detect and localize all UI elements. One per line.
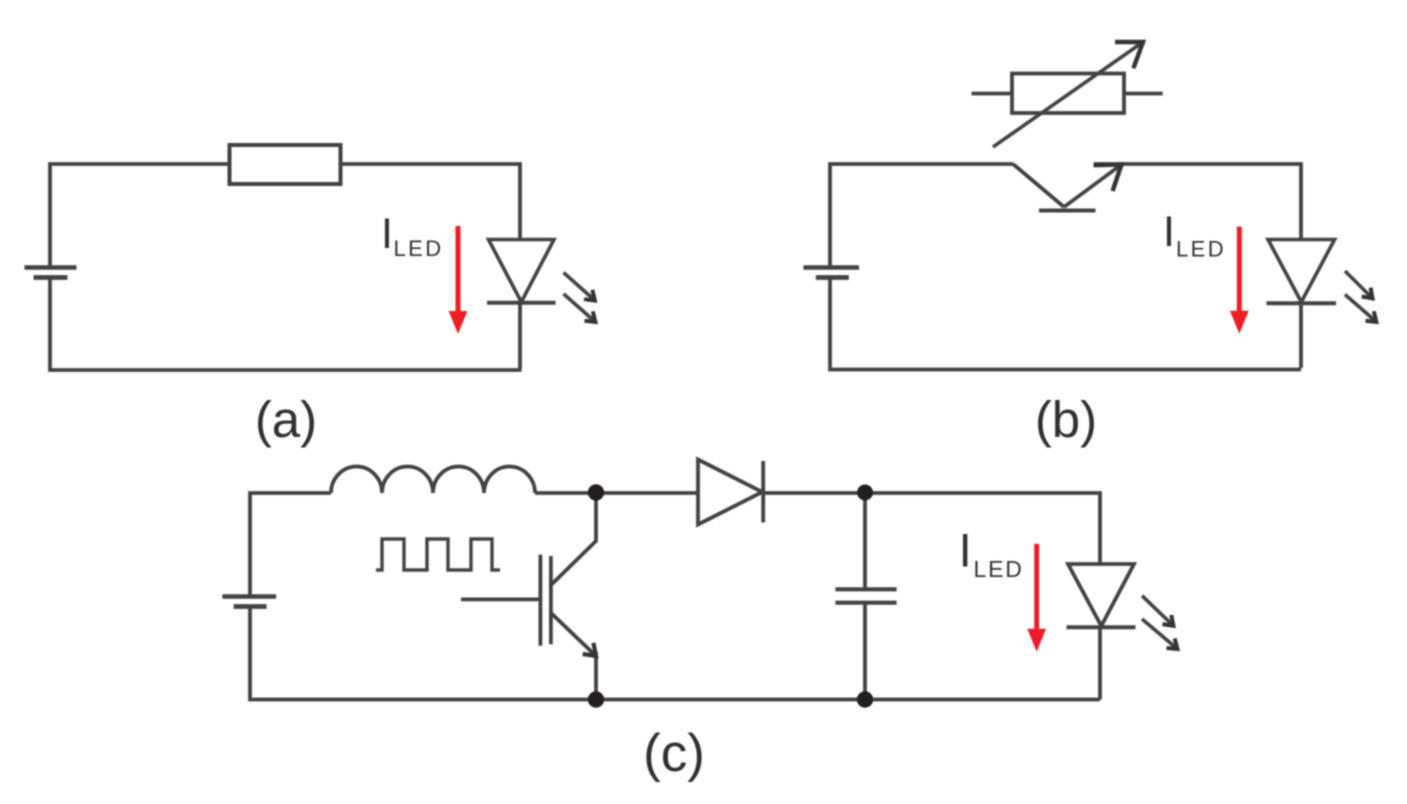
svg-text:(b): (b) [1035, 391, 1097, 448]
svg-text:LED: LED [1176, 237, 1226, 262]
svg-text:I: I [381, 210, 393, 258]
svg-text:I: I [1163, 208, 1175, 256]
svg-text:I: I [959, 524, 972, 577]
svg-text:LED: LED [974, 556, 1024, 582]
svg-text:LED: LED [394, 236, 444, 261]
svg-text:(c): (c) [643, 724, 705, 783]
svg-text:(a): (a) [255, 391, 317, 448]
